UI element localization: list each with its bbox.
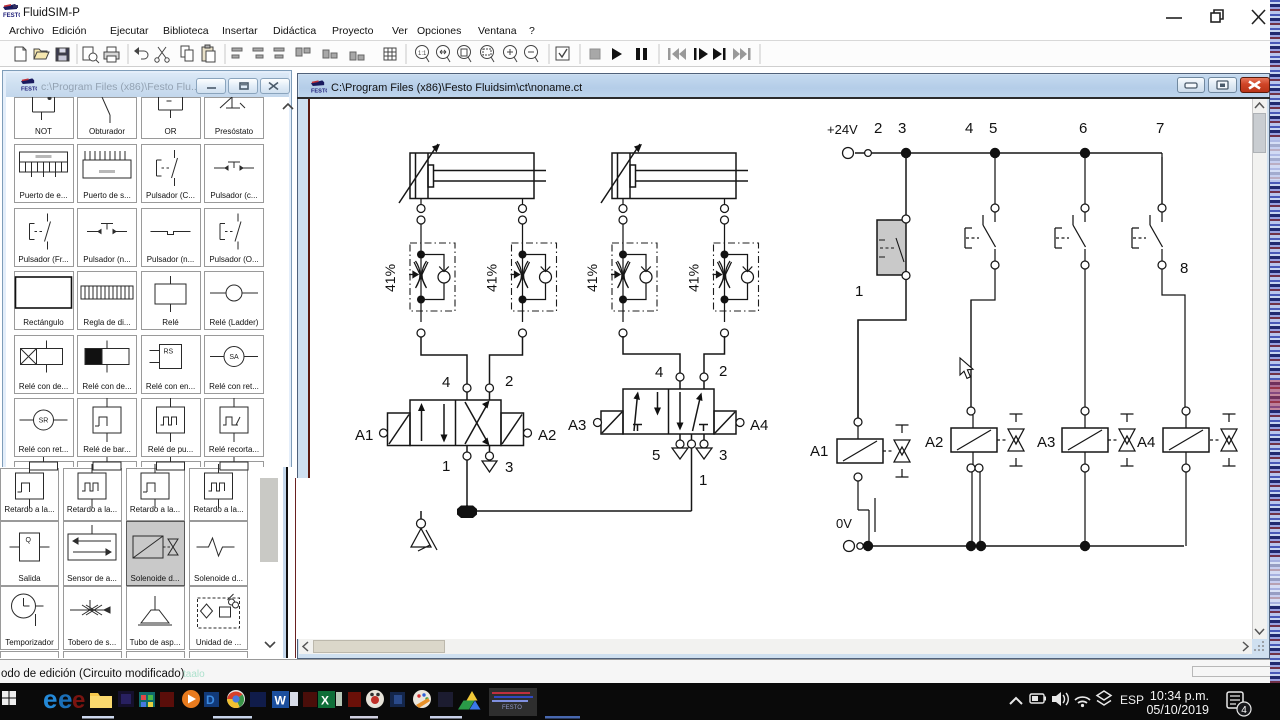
svg-text:05/10/2019: 05/10/2019 bbox=[1146, 703, 1209, 717]
svg-text:1:1: 1:1 bbox=[418, 51, 427, 57]
svg-text:e: e bbox=[72, 687, 85, 714]
svg-text:X: X bbox=[321, 694, 329, 708]
svg-text:FESTO: FESTO bbox=[21, 87, 37, 93]
svg-text:e: e bbox=[58, 684, 72, 714]
svg-text:4: 4 bbox=[1241, 705, 1247, 716]
svg-text:D: D bbox=[206, 693, 215, 707]
svg-text:10:34 p.m.: 10:34 p.m. bbox=[1150, 689, 1209, 703]
svg-text:FESTO: FESTO bbox=[311, 89, 327, 95]
svg-text:e: e bbox=[43, 684, 57, 714]
svg-text:ESP: ESP bbox=[1120, 693, 1144, 707]
svg-text:W: W bbox=[275, 694, 287, 708]
svg-text:FESTO: FESTO bbox=[3, 13, 20, 18]
svg-text:FESTO: FESTO bbox=[502, 705, 522, 711]
